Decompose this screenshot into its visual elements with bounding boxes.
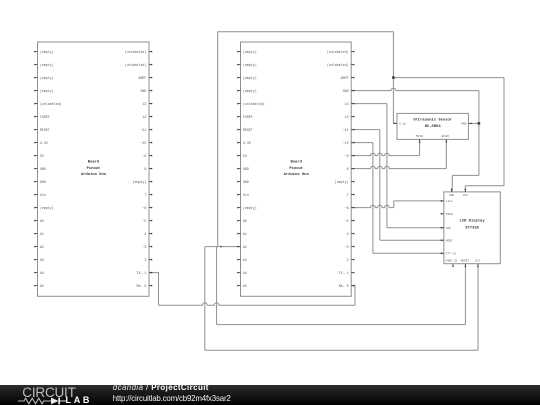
svg-text:ECHO: ECHO <box>442 135 449 138</box>
svg-text:TRIG: TRIG <box>416 135 423 138</box>
svg-text:D/C: D/C <box>475 258 480 262</box>
svg-text:(unlabeled): (unlabeled) <box>40 102 62 106</box>
svg-text:A3: A3 <box>243 258 247 262</box>
svg-text:2: 2 <box>144 258 146 262</box>
svg-text:MOSI: MOSI <box>446 239 453 242</box>
svg-text:(empty): (empty) <box>243 76 257 80</box>
svg-text:8: 8 <box>347 167 349 171</box>
svg-text:A3: A3 <box>40 258 44 262</box>
svg-text:CARD CS: CARD CS <box>445 259 457 262</box>
svg-text:~11: ~11 <box>343 128 349 132</box>
svg-text:SCK: SCK <box>446 227 451 230</box>
svg-text:AREF: AREF <box>341 76 349 80</box>
svg-text:(empty): (empty) <box>40 89 54 93</box>
svg-text:~9: ~9 <box>142 154 146 158</box>
svg-text:5V: 5V <box>243 154 247 158</box>
svg-text:7: 7 <box>347 193 349 197</box>
svg-text:(empty): (empty) <box>335 180 349 184</box>
svg-text:A1: A1 <box>243 232 247 236</box>
svg-text:~6: ~6 <box>345 206 349 210</box>
svg-text:RESET: RESET <box>243 128 253 132</box>
svg-text:2: 2 <box>347 258 349 262</box>
svg-text:TX→ 1: TX→ 1 <box>339 271 349 275</box>
svg-text:(empty): (empty) <box>133 180 147 184</box>
svg-text:(empty): (empty) <box>243 206 257 210</box>
svg-text:Board: Board <box>88 159 100 164</box>
svg-text:Lite: Lite <box>446 199 453 203</box>
svg-text:~3: ~3 <box>345 245 349 249</box>
svg-text:(empty): (empty) <box>243 63 257 67</box>
svg-text:Vin: Vin <box>40 193 46 197</box>
svg-text:GND: GND <box>243 167 249 171</box>
svg-text:A1: A1 <box>40 232 44 236</box>
svg-text:~11: ~11 <box>140 128 146 132</box>
svg-text:(empty): (empty) <box>243 50 257 54</box>
svg-text:(unlabeled): (unlabeled) <box>125 50 147 54</box>
svg-text:12: 12 <box>345 115 349 119</box>
svg-text:(empty): (empty) <box>40 63 54 67</box>
svg-text:3.3V: 3.3V <box>243 141 251 145</box>
svg-text:HC-SR04: HC-SR04 <box>425 125 442 129</box>
svg-text:V_in: V_in <box>399 122 406 126</box>
svg-text:RESET: RESET <box>461 259 470 262</box>
svg-text:13: 13 <box>142 102 146 106</box>
svg-text:~5: ~5 <box>142 219 146 223</box>
svg-text:GND: GND <box>40 180 46 184</box>
svg-text:TFT CS: TFT CS <box>446 252 456 255</box>
svg-text:Pinout: Pinout <box>289 166 303 171</box>
svg-text:Ultrasonic Sensor: Ultrasonic Sensor <box>413 118 452 123</box>
svg-text:~9: ~9 <box>345 154 349 158</box>
svg-text:Arduino Uno: Arduino Uno <box>81 172 107 177</box>
svg-text:(unlabeled): (unlabeled) <box>125 63 147 67</box>
svg-text:~3: ~3 <box>142 245 146 249</box>
svg-text:RX← 0: RX← 0 <box>136 284 146 288</box>
svg-text:(empty): (empty) <box>243 89 257 93</box>
svg-text:12: 12 <box>142 115 146 119</box>
svg-text:5V: 5V <box>40 154 44 158</box>
svg-text:A4: A4 <box>243 271 247 275</box>
svg-text:(unlabeled): (unlabeled) <box>327 63 349 67</box>
svg-text:A0: A0 <box>40 219 44 223</box>
svg-text:RESET: RESET <box>40 128 50 132</box>
svg-text:Arduino Uno: Arduino Uno <box>284 172 310 177</box>
svg-text:(empty): (empty) <box>40 206 54 210</box>
svg-text:(unlabeled): (unlabeled) <box>327 50 349 54</box>
svg-text:GND: GND <box>243 180 249 184</box>
svg-text:(unlabeled): (unlabeled) <box>243 102 265 106</box>
svg-text:IOREF: IOREF <box>40 115 50 119</box>
svg-text:A2: A2 <box>243 245 247 249</box>
svg-text:Board: Board <box>290 159 302 164</box>
svg-text:AREF: AREF <box>138 76 146 80</box>
svg-text:3.3V: 3.3V <box>40 141 48 145</box>
svg-text:GND: GND <box>449 194 454 197</box>
svg-text:RX← 0: RX← 0 <box>339 284 349 288</box>
svg-text:13: 13 <box>345 102 349 106</box>
svg-text:7: 7 <box>144 193 146 197</box>
svg-text:~6: ~6 <box>142 206 146 210</box>
svg-text:TX→ 1: TX→ 1 <box>136 271 146 275</box>
svg-text:GND: GND <box>40 167 46 171</box>
svg-text:Vin: Vin <box>243 193 249 197</box>
svg-text:GND: GND <box>140 89 146 93</box>
svg-text:A5: A5 <box>40 284 44 288</box>
svg-text:(empty): (empty) <box>40 50 54 54</box>
svg-text:LCD Display: LCD Display <box>460 219 486 224</box>
svg-text:~10: ~10 <box>343 141 349 145</box>
svg-text:(empty): (empty) <box>40 76 54 80</box>
svg-text:A4: A4 <box>40 271 44 275</box>
svg-text:IOREF: IOREF <box>243 115 253 119</box>
svg-text:Pinout: Pinout <box>87 166 101 171</box>
svg-text:GND: GND <box>343 89 349 93</box>
svg-text:A0: A0 <box>243 219 247 223</box>
svg-text:~5: ~5 <box>345 219 349 223</box>
svg-text:8: 8 <box>144 167 146 171</box>
svg-text:A2: A2 <box>40 245 44 249</box>
svg-text:4: 4 <box>144 232 146 236</box>
svg-text:ST7335: ST7335 <box>465 227 479 231</box>
svg-text:~10: ~10 <box>140 141 146 145</box>
svg-text:A5: A5 <box>243 284 247 288</box>
svg-text:VCC: VCC <box>463 194 468 197</box>
svg-text:4: 4 <box>347 232 349 236</box>
svg-text:MISO: MISO <box>446 213 453 216</box>
svg-text:GND: GND <box>461 123 467 126</box>
